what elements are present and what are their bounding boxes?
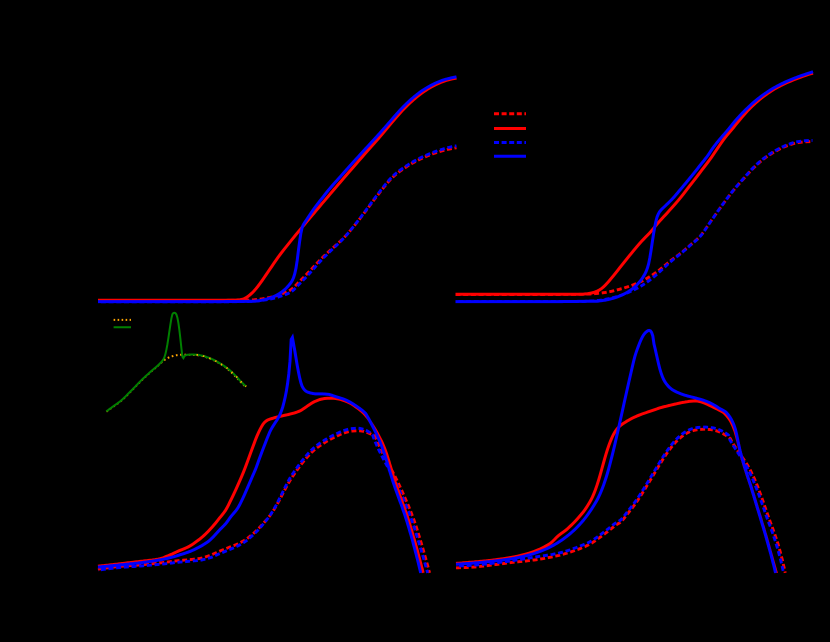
inset panel: orange dotted specks over green decline <box>197 355 247 387</box>
inset panel: green solid curve with spike <box>106 313 246 412</box>
legend: red solid line sample <box>494 127 526 130</box>
top-right panel: red solid CDF curve <box>456 73 814 294</box>
top-left panel: red dashed CDF curve <box>98 148 457 301</box>
inset panel: orange dotted smooth curve <box>106 355 246 412</box>
legend: red dashed line sample <box>494 112 526 115</box>
bottom-left panel: red solid PDF curve <box>98 398 423 573</box>
bottom-right panel: blue dashed PDF curve <box>456 427 784 573</box>
bottom-left panel: blue dashed PDF curve <box>98 428 428 573</box>
top-right panel: blue solid CDF curve with step <box>456 72 814 302</box>
bottom-right panel: red dashed PDF curve <box>456 429 785 573</box>
bottom-right panel: red solid PDF curve <box>456 401 776 573</box>
top-left panel: blue solid CDF curve with step <box>98 77 457 302</box>
bottom-left panel: blue solid PDF curve with spike <box>98 338 421 573</box>
top-left panel: blue dashed CDF curve <box>98 146 457 302</box>
inset legend: orange dotted line sample <box>114 319 131 321</box>
bottom-left panel: red dashed PDF curve <box>98 431 430 573</box>
legend: blue dashed line sample <box>494 141 526 144</box>
top-left panel: red solid CDF curve <box>98 78 457 300</box>
top-right panel: blue dashed CDF curve <box>456 140 813 301</box>
inset legend: green solid line sample <box>114 326 131 328</box>
bottom-right panel: blue solid PDF curve with spike <box>456 330 776 573</box>
legend: blue solid line sample <box>494 155 526 158</box>
top-right panel: red dashed CDF curve <box>456 142 813 295</box>
